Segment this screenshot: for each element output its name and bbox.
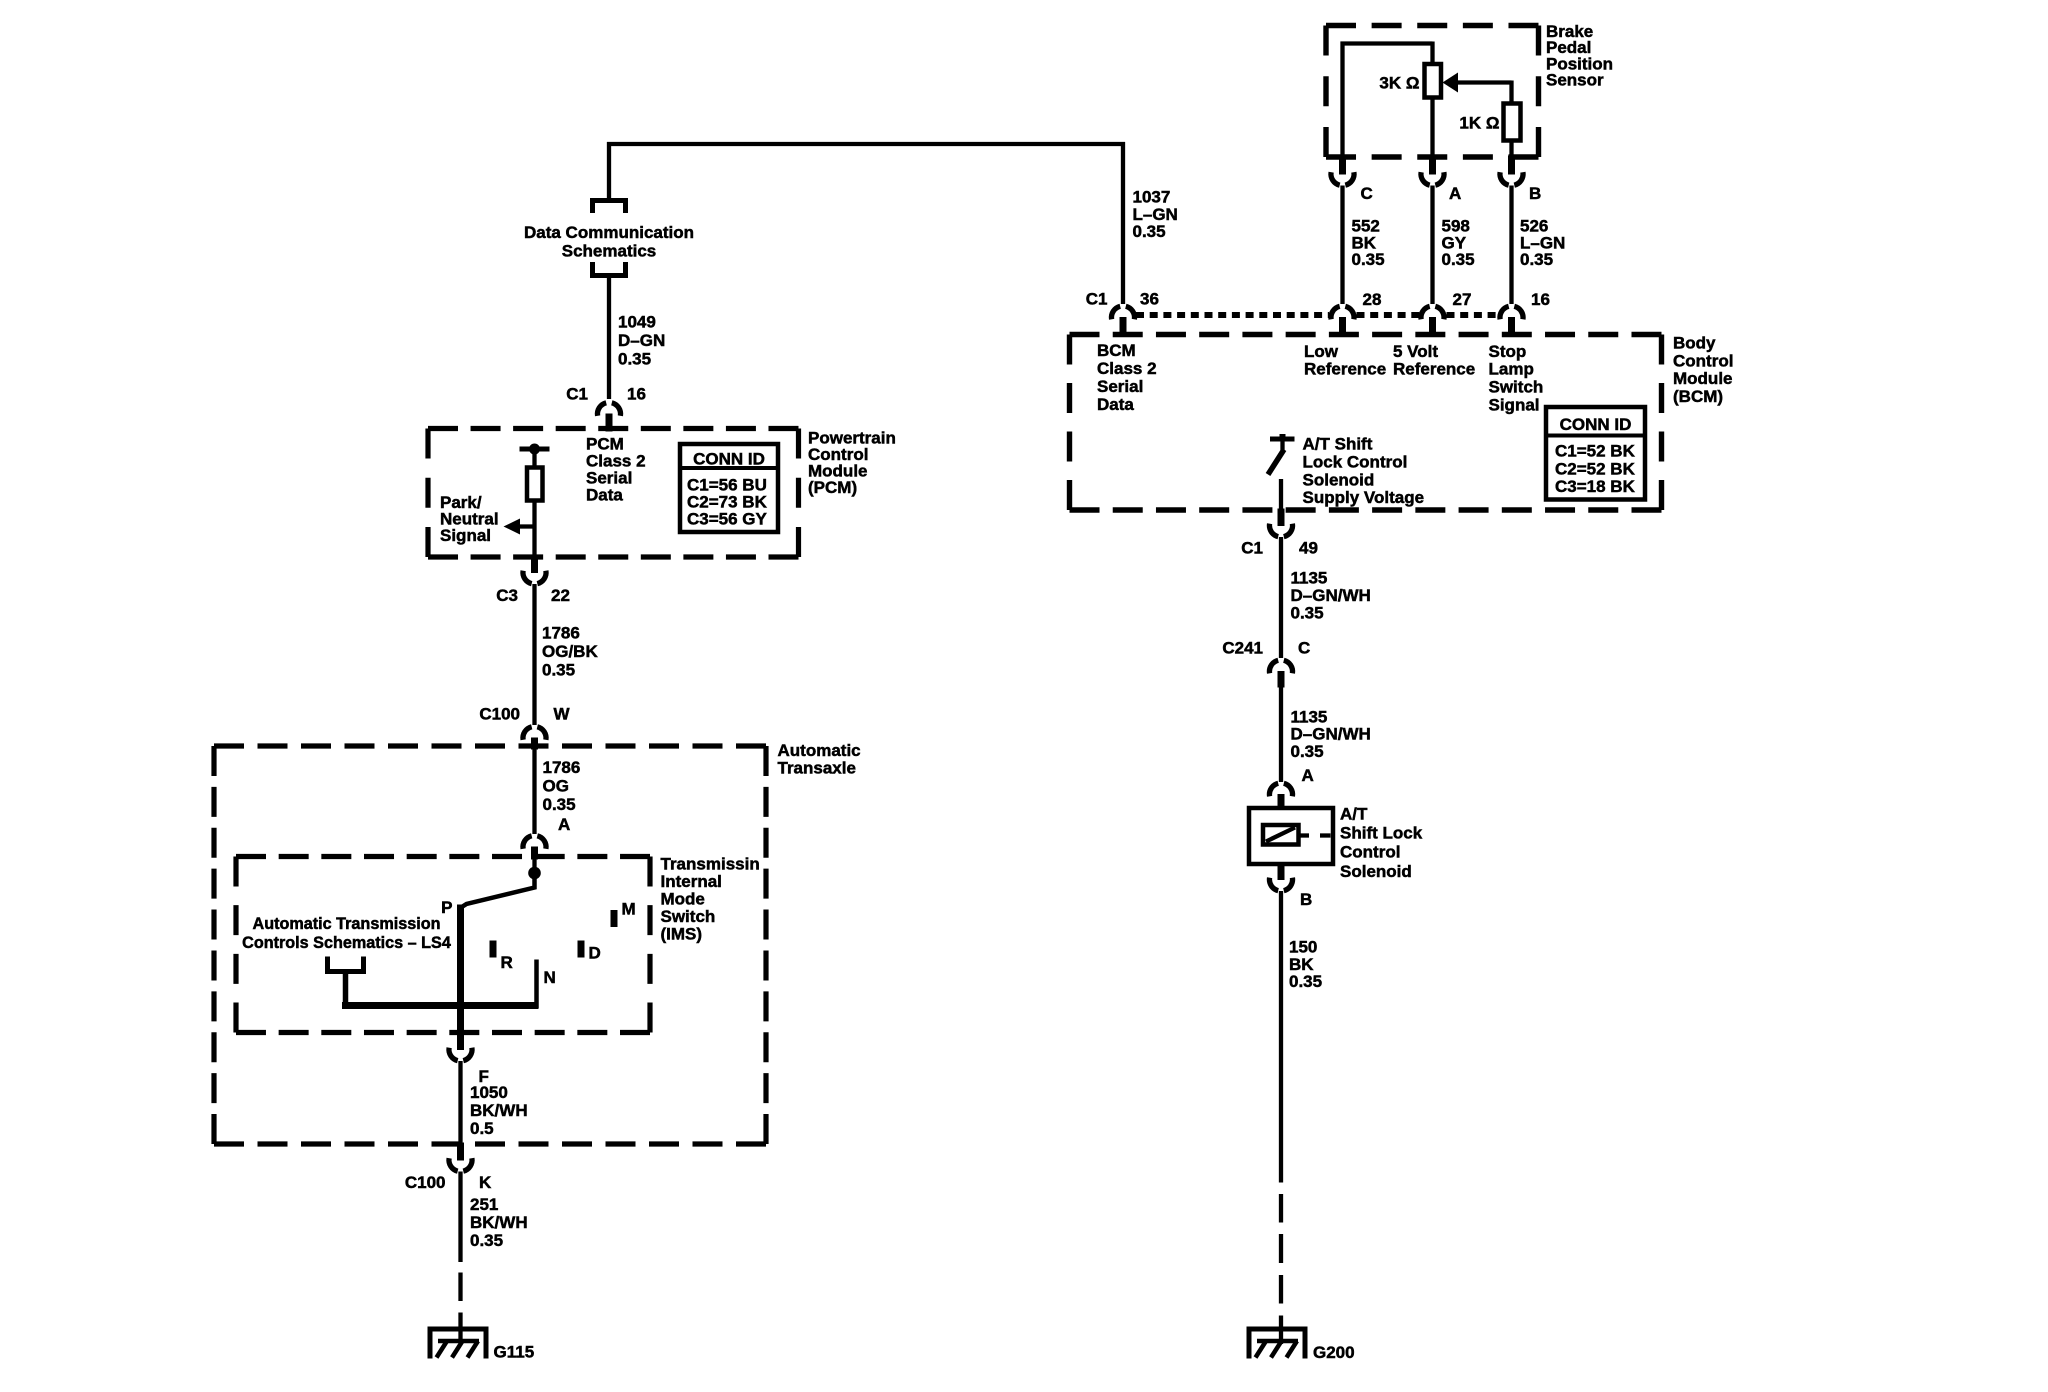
wire: circuit 1049 from reference to PCM connector C1 pin 16 (607, 276, 611, 400)
svg-text:OG: OG (543, 777, 569, 796)
svg-text:BK/WH: BK/WH (470, 1213, 528, 1232)
switch wiper: from pivot to contact P (463, 874, 535, 907)
junction dot at IMS wiper pivot (528, 867, 541, 880)
svg-text:0.35: 0.35 (1289, 972, 1322, 991)
svg-text:251: 251 (470, 1195, 498, 1214)
svg-text:0.35: 0.35 (618, 350, 651, 369)
wire: dashed ground lead segment 1 (G115) (458, 1273, 462, 1302)
wire: IMS common bus (342, 1002, 539, 1009)
svg-text:L–GN: L–GN (1133, 205, 1178, 224)
svg-text:Supply Voltage: Supply Voltage (1303, 488, 1425, 507)
CONN ID table (PCM) (680, 444, 778, 532)
connector pin F below IMS (449, 1031, 472, 1061)
svg-text:0.35: 0.35 (1352, 250, 1385, 269)
svg-text:0.35: 0.35 (543, 795, 576, 814)
wire: dashed ground lead segment 4 (G200) (1279, 1316, 1283, 1345)
svg-text:Data: Data (1097, 395, 1134, 414)
svg-text:D–GN: D–GN (618, 331, 665, 350)
off-page reference bracket (top) for Data Communication Schematics (593, 201, 626, 214)
svg-text:Mode: Mode (661, 890, 705, 909)
wire: dashed ground lead segment 2 (G200) (1279, 1234, 1283, 1263)
Automatic Transaxle dashed box (214, 746, 766, 1144)
svg-text:Class 2: Class 2 (1097, 359, 1157, 378)
svg-text:Solenoid: Solenoid (1303, 470, 1375, 489)
svg-text:BK: BK (1289, 955, 1314, 974)
svg-text:C241: C241 (1222, 639, 1263, 658)
svg-text:CONN ID: CONN ID (1560, 415, 1632, 434)
connector pin C below sensor (1331, 156, 1354, 186)
wire: contact P down to common bus (457, 905, 464, 1034)
dotted class-2 serial data link inside BCM header (1136, 312, 1499, 318)
wire: stem from LS4 reference bracket to bus (343, 972, 349, 1008)
Brake Pedal Position Sensor dashed box (1326, 26, 1539, 158)
svg-text:C: C (1361, 184, 1373, 203)
svg-text:49: 49 (1299, 539, 1318, 558)
svg-text:C100: C100 (405, 1173, 446, 1192)
wire: circuit 1050 BK/WH to transaxle connector (458, 1061, 462, 1144)
wire: dashed ground lead segment 3 (G200) (1279, 1275, 1283, 1304)
off-page reference bracket (bottom) for Data Communication Schematics (593, 262, 626, 276)
svg-text:W: W (554, 705, 571, 724)
svg-text:G200: G200 (1313, 1343, 1355, 1362)
svg-text:A: A (1302, 766, 1314, 785)
svg-text:27: 27 (1453, 290, 1472, 309)
switch: A/T shift lock supply contact bar (1270, 434, 1295, 439)
svg-text:D–GN/WH: D–GN/WH (1291, 586, 1371, 605)
connector C100 pin W into Automatic Transaxle (523, 727, 546, 750)
svg-text:Shift Lock: Shift Lock (1340, 824, 1423, 843)
svg-text:Sensor: Sensor (1546, 71, 1604, 90)
svg-text:K: K (479, 1173, 492, 1192)
svg-text:(PCM): (PCM) (808, 478, 857, 497)
svg-text:(IMS): (IMS) (661, 925, 703, 944)
svg-text:Control: Control (1340, 843, 1400, 862)
connector pin A into Transmission Internal Mode Switch (523, 836, 546, 860)
svg-text:1050: 1050 (470, 1083, 508, 1102)
svg-text:Signal: Signal (1489, 396, 1540, 415)
connector C100 pin K below Automatic Transaxle (449, 1143, 472, 1172)
wire: dashed ground lead segment 1 (G200) (1279, 1194, 1283, 1223)
ground symbol G115 (428, 1329, 489, 1359)
svg-text:A: A (558, 815, 570, 834)
svg-text:P: P (441, 898, 452, 917)
wire: sensor internal drop to potentiometer (1430, 42, 1434, 65)
connector pin A at solenoid (1269, 783, 1292, 809)
svg-text:1786: 1786 (542, 624, 580, 643)
in-line connector C241 pin C (1269, 660, 1292, 687)
svg-text:36: 36 (1140, 290, 1159, 309)
connector pin B below solenoid (1269, 863, 1292, 891)
svg-text:Reference: Reference (1304, 360, 1386, 379)
svg-text:Controls Schematics – LS4: Controls Schematics – LS4 (242, 934, 451, 952)
connector C1 pin 49 below BCM (1269, 509, 1292, 537)
svg-text:Transaxle: Transaxle (778, 759, 856, 778)
junction dot on PCM serial data line (529, 444, 540, 455)
svg-text:(BCM): (BCM) (1673, 387, 1723, 406)
wire: circuit 150 BK to ground (1279, 891, 1283, 1183)
svg-text:C3=56 GY: C3=56 GY (687, 510, 768, 529)
svg-text:N: N (544, 968, 556, 987)
svg-text:5 Volt: 5 Volt (1393, 342, 1438, 361)
svg-text:0.35: 0.35 (542, 661, 575, 680)
wire: circuit 1135 from C241 to solenoid pin A (1279, 688, 1283, 783)
svg-text:C1: C1 (1241, 539, 1263, 558)
contact tick D (578, 941, 585, 958)
svg-text:Data Communication: Data Communication (524, 223, 694, 242)
wire: PCM internal above resistor (532, 447, 536, 468)
wire: sensor internal left branch (to pin C) (1340, 42, 1344, 157)
svg-text:Lock Control: Lock Control (1303, 452, 1408, 471)
svg-text:1037: 1037 (1133, 188, 1171, 207)
svg-text:0.5: 0.5 (470, 1119, 494, 1138)
svg-text:Switch: Switch (661, 907, 716, 926)
svg-text:Transmissin: Transmissin (661, 855, 760, 874)
wire: branch to Park/Neutral Signal arrow (519, 524, 535, 528)
svg-text:Automatic: Automatic (778, 741, 861, 760)
arrow: Park/Neutral Signal (points left) (504, 519, 521, 535)
svg-text:Signal: Signal (440, 526, 491, 545)
svg-text:Stop: Stop (1489, 342, 1527, 361)
svg-text:G115: G115 (494, 1343, 535, 1362)
svg-text:Schematics: Schematics (562, 242, 657, 261)
svg-text:R: R (501, 953, 513, 972)
svg-text:1049: 1049 (618, 313, 656, 332)
svg-text:0.35: 0.35 (1520, 250, 1553, 269)
svg-text:Body: Body (1673, 334, 1716, 353)
svg-text:BCM: BCM (1097, 341, 1136, 360)
wire: contact N down to common bus (534, 960, 539, 1009)
svg-text:Module: Module (1673, 369, 1733, 388)
wire: circuit 1786 OG/BK from PCM C3-22 to C100-W (532, 584, 536, 725)
wire: sensor internal top link (1341, 41, 1433, 45)
svg-text:C1=52 BK: C1=52 BK (1555, 442, 1636, 461)
svg-text:16: 16 (1531, 290, 1550, 309)
solenoid coil element (1263, 825, 1299, 845)
wire: circuit 598 GY (A to BCM 27) (1430, 186, 1434, 305)
svg-text:1786: 1786 (543, 758, 581, 777)
svg-text:Reference: Reference (1393, 360, 1475, 379)
CONN ID table (BCM) (1546, 407, 1645, 500)
svg-text:0.35: 0.35 (1442, 250, 1475, 269)
wiper arrow of potentiometer (1443, 73, 1512, 93)
svg-text:B: B (1300, 890, 1312, 909)
svg-text:150: 150 (1289, 938, 1317, 957)
connector C1 pin 16 at PCM (597, 403, 620, 432)
wire: switch output down to BCM edge (1279, 479, 1283, 509)
potentiometer 3K ohm (1425, 64, 1442, 98)
wire: circuit 251 BK/WH to ground (458, 1172, 462, 1263)
svg-text:16: 16 (627, 385, 646, 404)
off-page reference bracket for Automatic Transmission Controls Schematics - LS4 (328, 957, 364, 972)
wire: IMS common feed into wiper (532, 858, 536, 873)
svg-text:1K Ω: 1K Ω (1459, 114, 1499, 133)
svg-text:A/T Shift: A/T Shift (1303, 435, 1373, 454)
svg-text:Automatic Transmission: Automatic Transmission (253, 915, 441, 933)
svg-text:Low: Low (1304, 342, 1339, 361)
svg-text:C2=52 BK: C2=52 BK (1555, 459, 1636, 478)
node: pull-up bar inside PCM (520, 447, 550, 452)
connector pin 16 at BCM (1500, 306, 1523, 336)
wire: switch stem (1280, 441, 1284, 450)
connector pin B below sensor (1500, 156, 1523, 186)
resistor (PCM internal) (527, 468, 543, 501)
svg-text:22: 22 (551, 586, 570, 605)
wire: circuit 1786 OG inside transaxle to IMS pin A (532, 748, 536, 834)
svg-text:3K Ω: 3K Ω (1379, 74, 1419, 93)
resistor 1K ohm (1504, 104, 1521, 141)
svg-text:BK/WH: BK/WH (470, 1101, 528, 1120)
svg-text:Internal: Internal (661, 872, 722, 891)
svg-text:B: B (1529, 184, 1541, 203)
mechanical link dashes (1299, 833, 1331, 837)
wire: circuit 526 L-GN (B to BCM 16) (1509, 186, 1513, 305)
svg-text:0.35: 0.35 (1133, 222, 1166, 241)
svg-text:C100: C100 (479, 705, 520, 724)
svg-text:0.35: 0.35 (1291, 742, 1324, 761)
svg-text:28: 28 (1363, 290, 1382, 309)
svg-text:OG/BK: OG/BK (542, 642, 598, 661)
svg-text:0.35: 0.35 (1291, 604, 1324, 623)
A/T Shift Lock Control Solenoid box (1249, 808, 1333, 864)
svg-text:Solenoid: Solenoid (1340, 862, 1412, 881)
svg-text:C1: C1 (566, 385, 588, 404)
svg-text:C3: C3 (496, 586, 518, 605)
svg-text:M: M (622, 900, 636, 919)
ground symbol G200 (1247, 1329, 1308, 1359)
svg-text:Data: Data (586, 486, 623, 505)
wire: potentiometer bottom to pin A (1430, 98, 1434, 157)
svg-text:CONN ID: CONN ID (693, 450, 765, 469)
connector C1 pin 36 at BCM (1111, 306, 1134, 336)
wire: circuit 552 BK (C to BCM 28) (1340, 186, 1344, 305)
connector C3 pin 22 below PCM (523, 556, 546, 584)
svg-text:0.35: 0.35 (470, 1231, 503, 1250)
svg-text:A: A (1449, 184, 1461, 203)
wire: circuit 1135 from BCM to C241 (1279, 537, 1283, 658)
svg-text:A/T: A/T (1340, 805, 1368, 824)
svg-text:C3=18 BK: C3=18 BK (1555, 477, 1636, 496)
svg-text:Serial: Serial (1097, 377, 1143, 396)
wire: vertical drop into Data Communication Schematics reference (607, 142, 611, 200)
wire: 1K resistor bottom to pin B (1509, 141, 1513, 157)
connector pin A below sensor (1421, 156, 1444, 186)
Transmission Internal Mode Switch dashed box (236, 857, 650, 1033)
wire: top horizontal bus from data-comm reference to BCM drop (607, 142, 1125, 146)
svg-text:C: C (1298, 639, 1310, 658)
svg-text:D–GN/WH: D–GN/WH (1291, 725, 1371, 744)
contact tick M (611, 910, 618, 927)
svg-text:1135: 1135 (1291, 707, 1328, 726)
Body Control Module dashed box (1070, 335, 1662, 511)
svg-text:C1: C1 (1086, 290, 1108, 309)
svg-text:Lamp: Lamp (1489, 360, 1534, 379)
wire: dashed ground lead segment 2 (G115) (458, 1313, 462, 1342)
switch lever (open, inside BCM) (1268, 450, 1284, 475)
svg-text:Switch: Switch (1489, 378, 1544, 397)
svg-text:1135: 1135 (1291, 569, 1328, 588)
wire: wiper feed down to 1K resistor (1509, 81, 1513, 104)
wire: PCM internal below resistor (532, 501, 536, 558)
solenoid coil slash (1266, 828, 1295, 842)
connector pin 27 at BCM (1421, 306, 1444, 336)
contact tick R (490, 941, 497, 958)
wire: circuit 1037 L-GN drop into BCM C1 pin 36 (1121, 142, 1125, 304)
PCM dashed module box (428, 429, 799, 558)
svg-text:D: D (589, 944, 601, 963)
svg-text:Control: Control (1673, 351, 1733, 370)
connector pin 28 at BCM (1331, 306, 1354, 336)
